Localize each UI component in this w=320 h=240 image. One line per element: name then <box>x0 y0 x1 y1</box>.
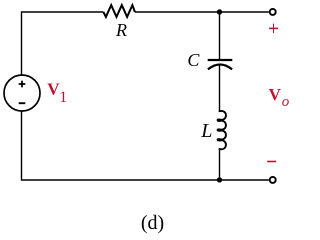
svg-text:o: o <box>282 94 290 110</box>
voltage source V1 circle <box>4 75 40 111</box>
node junction dot bottom <box>217 177 222 182</box>
label - (output polarity) <box>267 161 276 163</box>
svg-text:C: C <box>187 50 200 70</box>
resistor R <box>103 5 134 17</box>
capacitor C <box>208 60 233 69</box>
wire top-left horizontal and left vertical upper <box>22 12 104 75</box>
svg-text:1: 1 <box>59 89 67 106</box>
label - inside source <box>19 102 26 104</box>
svg-text:R: R <box>115 20 127 40</box>
wire middle branch upper <box>219 12 221 59</box>
svg-text:V: V <box>269 85 282 104</box>
node junction dot top <box>217 9 222 14</box>
svg-text:L: L <box>200 120 212 142</box>
inductor L <box>218 111 226 149</box>
svg-text:(d): (d) <box>141 212 164 234</box>
wire top-right horizontal <box>135 11 269 13</box>
wire left vertical lower and bottom horizontal <box>22 111 269 180</box>
label + inside source <box>19 81 26 88</box>
wire middle branch lower <box>219 148 221 180</box>
terminal circle bottom <box>270 177 276 183</box>
label + (output polarity) <box>269 24 278 33</box>
terminal circle top <box>270 9 276 15</box>
wire middle branch between C and L <box>219 65 221 111</box>
